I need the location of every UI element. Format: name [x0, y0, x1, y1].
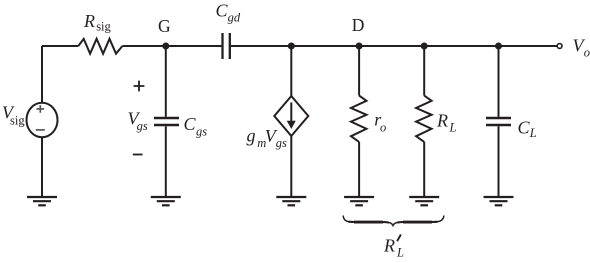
svg-text:gd: gd [228, 11, 241, 25]
svg-text:L: L [449, 120, 457, 134]
svg-text:D: D [352, 15, 365, 35]
svg-text:R: R [83, 11, 95, 31]
svg-text:C: C [518, 117, 531, 137]
svg-text:sig: sig [10, 114, 25, 128]
svg-text:C: C [216, 0, 229, 20]
svg-text:g: g [247, 126, 256, 146]
svg-text:L: L [529, 126, 537, 140]
svg-text:gs: gs [196, 124, 207, 138]
svg-text:o: o [584, 46, 590, 60]
svg-text:gs: gs [276, 136, 287, 150]
svg-text:R: R [383, 235, 395, 255]
svg-text:R: R [436, 111, 448, 131]
svg-text:gs: gs [137, 119, 148, 133]
svg-text:L: L [396, 246, 404, 259]
svg-text:sig: sig [96, 20, 111, 34]
svg-text:o: o [380, 120, 386, 134]
svg-text:G: G [158, 16, 171, 36]
svg-text:C: C [184, 114, 197, 134]
